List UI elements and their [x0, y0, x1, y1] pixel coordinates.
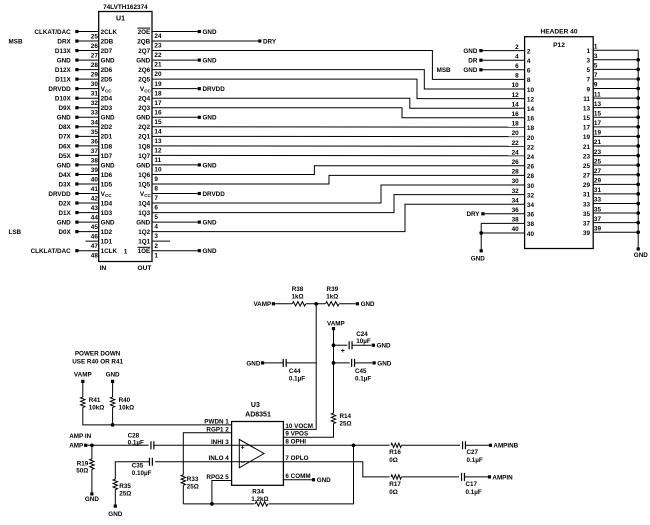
P12 pin 18 [512, 121, 535, 133]
svg-text:23: 23 [154, 43, 162, 50]
P12 pin 39 wire to ground bus [583, 225, 640, 237]
svg-text:29: 29 [91, 72, 99, 79]
svg-text:30: 30 [91, 81, 99, 88]
U1 pin 43 (1D4) input wire D2X [58, 200, 112, 212]
svg-text:R34: R34 [252, 489, 264, 496]
svg-text:2CLK: 2CLK [101, 29, 118, 36]
node OPHI feedback junction [352, 443, 356, 447]
P12 pin 25 wire to ground bus [583, 158, 640, 170]
svg-text:30: 30 [527, 183, 535, 190]
U1 pin 11 (1Q7) output wire to P12 pin 24 [138, 153, 524, 164]
svg-text:1: 1 [124, 248, 128, 255]
svg-text:R35: R35 [119, 483, 131, 490]
svg-text:34: 34 [91, 119, 99, 126]
svg-text:D7X: D7X [58, 134, 71, 141]
svg-text:0Ω: 0Ω [389, 457, 398, 464]
svg-text:2Q4: 2Q4 [138, 96, 150, 103]
svg-text:1kΩ: 1kΩ [291, 293, 303, 300]
svg-text:27: 27 [583, 173, 591, 180]
U1 pin 1 (1OE) output wire to GND [137, 247, 217, 259]
U1 pin 28 (GND) input wire GND [57, 57, 115, 69]
svg-text:GND: GND [101, 220, 115, 227]
svg-text:GND: GND [57, 220, 71, 227]
svg-text:C17: C17 [466, 481, 478, 488]
U1 pin 14 (2Q2) output wire to P12 pin 18 [138, 124, 524, 135]
svg-text:1Q7: 1Q7 [138, 153, 150, 160]
U1 pin 46 (1D2) input wire D0X [58, 229, 112, 241]
svg-text:1Q3: 1Q3 [138, 210, 150, 217]
svg-text:2DB: 2DB [101, 38, 114, 45]
U1 pin 21 (GND) output wire to GND [136, 57, 217, 68]
svg-text:VAMP: VAMP [74, 372, 92, 379]
ground label below P12 pins 38/40 [471, 256, 485, 263]
svg-text:GND: GND [361, 301, 375, 308]
svg-text:MSB: MSB [9, 38, 23, 45]
svg-text:18: 18 [527, 125, 535, 132]
P12 pin 16 [512, 111, 535, 123]
svg-text:D8X: D8X [58, 124, 71, 131]
resistor R17 0Ω [389, 475, 401, 496]
P12 pin 19 wire to ground bus [583, 130, 640, 142]
capacitor C27 0.1µF [463, 441, 483, 464]
svg-text:48: 48 [91, 253, 99, 260]
svg-text:R38: R38 [292, 286, 304, 293]
wire R38 to R39 with VOCM tap [306, 303, 325, 305]
svg-text:2D4: 2D4 [101, 96, 113, 103]
AMP input terminal [69, 443, 87, 450]
svg-text:36: 36 [91, 138, 99, 145]
svg-text:34: 34 [512, 197, 520, 204]
svg-text:GND: GND [317, 477, 331, 484]
resistor R38 1kΩ [291, 286, 305, 306]
svg-text:VAMP: VAMP [327, 321, 345, 328]
svg-text:25Ω: 25Ω [340, 421, 352, 428]
wire R39 to GND [339, 301, 375, 308]
U1 pin 10 (GND) output wire to GND [136, 162, 217, 173]
connector P12 HEADER 40 body [525, 37, 594, 249]
U1 pin 18 (VCC) output wire to DRVDD [140, 86, 225, 97]
svg-text:21: 21 [154, 62, 162, 69]
svg-text:R40: R40 [119, 397, 131, 404]
svg-text:23: 23 [583, 153, 591, 160]
svg-text:14: 14 [527, 106, 535, 113]
svg-text:GND: GND [57, 57, 71, 64]
svg-text:GND: GND [57, 162, 71, 169]
svg-text:35: 35 [91, 129, 99, 136]
svg-text:GND: GND [634, 252, 648, 259]
svg-text:GND: GND [101, 115, 115, 122]
svg-text:38: 38 [527, 221, 535, 228]
svg-text:18: 18 [154, 90, 162, 97]
svg-text:GND: GND [136, 220, 150, 227]
svg-text:42: 42 [91, 196, 99, 203]
svg-text:3: 3 [586, 58, 590, 65]
svg-text:USE R40 OR R41: USE R40 OR R41 [72, 358, 123, 365]
U1 pin 35 (2D2) input wire D8X [58, 124, 112, 136]
svg-text:39: 39 [594, 225, 602, 232]
svg-text:IN: IN [100, 265, 107, 272]
svg-text:DRY: DRY [466, 211, 480, 218]
wire C27 to AMPINB terminal [466, 443, 519, 450]
svg-text:3: 3 [154, 233, 158, 240]
svg-text:2: 2 [527, 48, 531, 55]
svg-text:LSB: LSB [9, 229, 22, 236]
svg-text:1.2kΩ: 1.2kΩ [251, 496, 268, 503]
svg-text:2D1: 2D1 [101, 134, 113, 141]
wire R34 to OPHI tap [269, 445, 354, 504]
U1 pin 36 (2D1) input wire D7X [58, 134, 112, 146]
U1 pin 19 (2Q5) output wire to P12 pin 12 [138, 77, 524, 99]
U1 pin 3 (1Q2) output wire to P12 pin 34 [138, 204, 524, 240]
svg-text:D2X: D2X [58, 200, 71, 207]
svg-text:GND: GND [85, 496, 99, 503]
svg-text:GND: GND [101, 57, 115, 64]
svg-text:PWDN 1: PWDN 1 [204, 418, 229, 425]
svg-text:MSB: MSB [437, 67, 451, 74]
U1 pin 42 (VCC) input wire DRVDD [48, 191, 112, 203]
svg-text:25Ω: 25Ω [119, 490, 131, 497]
U1 reference designator [116, 16, 125, 23]
svg-text:2D2: 2D2 [101, 124, 113, 131]
U3 pin 5 RPG2 label [206, 474, 229, 481]
svg-text:5: 5 [594, 63, 598, 70]
svg-text:1kΩ: 1kΩ [326, 293, 338, 300]
U1 pin 47 (1D1) input wire 1D1 stub [86, 239, 113, 251]
capacitor C24 10µF polarized [334, 331, 371, 355]
svg-text:31: 31 [594, 187, 602, 194]
svg-text:GND: GND [101, 162, 115, 169]
U3 reference designator [251, 402, 260, 409]
U1 pin 40 (1D6) input wire D4X [58, 172, 112, 184]
svg-text:19: 19 [594, 130, 602, 137]
LSB marker (input side) [9, 229, 22, 236]
P12 pin 8 [515, 73, 531, 85]
svg-text:GND: GND [377, 360, 391, 367]
wire VOCM vertical from R38/R39 junction to U3 pin 10 [283, 304, 316, 430]
IC U1 74LVTH162374 body [99, 12, 152, 262]
U1 pin 12 (1Q8) output wire to P12 pin 22 [138, 143, 524, 154]
svg-text:2Q5: 2Q5 [138, 77, 150, 84]
svg-text:C28: C28 [128, 432, 140, 439]
P12 pin 11 wire to ground bus [583, 91, 640, 103]
wire R17 to C17 [402, 476, 460, 478]
svg-text:1D7: 1D7 [101, 153, 113, 160]
svg-text:C27: C27 [467, 449, 479, 456]
MSB marker (input side) [9, 38, 23, 45]
svg-text:GND: GND [203, 162, 217, 169]
U1 pin 4 (GND) output wire to GND [136, 220, 217, 231]
svg-text:R14: R14 [340, 413, 352, 420]
svg-text:11: 11 [594, 91, 601, 98]
svg-text:33: 33 [594, 197, 602, 204]
svg-text:1D6: 1D6 [101, 172, 113, 179]
svg-text:6 COMM: 6 COMM [285, 473, 310, 480]
svg-text:C44: C44 [289, 368, 301, 375]
svg-text:D3X: D3X [58, 181, 71, 188]
P12 pin 36 from DRY [466, 207, 534, 219]
svg-text:+: + [241, 445, 245, 452]
svg-text:12: 12 [154, 147, 162, 154]
svg-text:14: 14 [154, 128, 162, 135]
svg-text:1Q8: 1Q8 [138, 143, 150, 150]
MSB marker at P12 pin 6 [437, 67, 451, 74]
U1 pin 33 (2D3) input wire D9X [58, 105, 112, 117]
svg-text:D13X: D13X [55, 48, 72, 55]
svg-text:22: 22 [512, 140, 520, 147]
svg-text:2: 2 [515, 44, 519, 51]
svg-text:CLKLAT/DAC: CLKLAT/DAC [31, 248, 72, 255]
resistor R33 25Ω [181, 475, 199, 491]
svg-text:D5X: D5X [58, 153, 71, 160]
U1 pin 8 (1Q5) output wire to P12 pin 28 [138, 175, 524, 192]
resistor R14 25Ω [331, 413, 351, 428]
P12 pin 1 wire to ground bus [586, 43, 638, 55]
svg-text:0Ω: 0Ω [389, 489, 398, 496]
wire VAMP down to R14 [333, 330, 335, 413]
wire C45 to GND [354, 360, 391, 367]
svg-text:17: 17 [583, 125, 591, 132]
svg-text:1Q5: 1Q5 [138, 181, 150, 188]
svg-text:R17: R17 [389, 481, 401, 488]
wire U3 pin 5 RPG2 down to gain rail [210, 481, 232, 506]
capacitor C45 0.1µF [334, 359, 372, 382]
svg-text:13: 13 [583, 105, 591, 112]
svg-text:40: 40 [91, 176, 99, 183]
svg-text:24: 24 [512, 149, 520, 156]
svg-text:10: 10 [512, 82, 520, 89]
wire P12 pins 38/40 to GND with junction [479, 223, 483, 252]
svg-text:35: 35 [594, 206, 602, 213]
svg-text:GND: GND [377, 343, 391, 350]
resistor R39 1kΩ [326, 286, 340, 306]
U1 pin 1 number inside [124, 248, 128, 255]
svg-text:CLKAT/DAC: CLKAT/DAC [34, 29, 71, 36]
svg-text:D6X: D6X [58, 143, 71, 150]
P12 pin 24 [512, 149, 535, 161]
svg-text:1D1: 1D1 [101, 239, 113, 246]
svg-text:10kΩ: 10kΩ [89, 404, 105, 411]
svg-text:29: 29 [594, 178, 602, 185]
P12 pin 35 wire to ground bus [583, 206, 640, 218]
svg-text:18: 18 [512, 121, 520, 128]
svg-text:1: 1 [586, 48, 590, 55]
svg-text:R39: R39 [327, 286, 339, 293]
svg-text:43: 43 [91, 205, 99, 212]
svg-text:4: 4 [527, 58, 531, 65]
wire U3 pin 2 RGP1 to R33 [183, 433, 231, 475]
svg-text:D11X: D11X [55, 77, 71, 84]
svg-text:27: 27 [594, 168, 602, 175]
svg-text:D0X: D0X [58, 229, 71, 236]
U1 OUT label [138, 265, 152, 272]
svg-text:10kΩ: 10kΩ [119, 404, 135, 411]
svg-text:INHI 3: INHI 3 [211, 439, 229, 446]
svg-text:D4X: D4X [58, 172, 71, 179]
VAMP terminal feeding VPOS [327, 321, 345, 331]
wire R41 to PWDN rail [83, 407, 232, 425]
svg-text:1OE: 1OE [138, 248, 151, 255]
U1 pin 16 (2Q3) output wire to P12 pin 16 [138, 105, 524, 118]
svg-text:37: 37 [594, 216, 602, 223]
svg-text:40: 40 [512, 226, 520, 233]
svg-text:20: 20 [527, 135, 535, 142]
ground label below R19 [85, 496, 99, 503]
wire R40 to PWDN rail with junction [111, 407, 115, 426]
svg-text:38: 38 [512, 217, 520, 224]
svg-text:AMP IN: AMP IN [69, 433, 91, 440]
svg-text:3: 3 [594, 53, 598, 60]
resistor R35 25Ω [113, 479, 131, 497]
svg-text:20: 20 [512, 130, 520, 137]
U1 pin 26 (2DB) input wire DRX [57, 38, 113, 50]
svg-text:GND: GND [246, 360, 260, 367]
svg-text:VCC: VCC [101, 191, 113, 198]
svg-text:36: 36 [512, 207, 520, 214]
svg-text:50Ω: 50Ω [76, 467, 88, 474]
node C24 tap [332, 343, 336, 347]
svg-text:13: 13 [594, 101, 602, 108]
svg-text:2D5: 2D5 [101, 77, 113, 84]
P12 pin 31 wire to ground bus [583, 187, 640, 199]
svg-text:D12X: D12X [55, 67, 72, 74]
svg-text:GND: GND [463, 67, 477, 74]
svg-text:10 VOCM: 10 VOCM [285, 423, 313, 430]
svg-text:2OE: 2OE [138, 29, 151, 36]
svg-text:2Q2: 2Q2 [138, 124, 150, 131]
resistor R34 1.2kΩ [251, 489, 268, 506]
P12 pin 9 wire to ground bus [586, 82, 640, 94]
U1 pin 39 (GND) input wire GND [57, 162, 115, 174]
svg-text:D9X: D9X [58, 105, 71, 112]
svg-text:25Ω: 25Ω [187, 484, 199, 491]
U1 pin 32 (2D4) input wire D10X [55, 96, 113, 108]
svg-text:AMPINB: AMPINB [493, 443, 518, 450]
U1 pin 48 (1CLK) input wire CLKLAT/DAC [31, 248, 118, 260]
svg-text:1D3: 1D3 [101, 210, 113, 217]
svg-text:28: 28 [91, 62, 99, 69]
svg-text:11: 11 [154, 157, 161, 164]
U1 pin 27 (2D7) input wire D13X [55, 48, 113, 60]
svg-text:AMPIN: AMPIN [492, 474, 513, 481]
svg-text:22: 22 [527, 144, 535, 151]
svg-text:23: 23 [594, 149, 602, 156]
svg-text:RPG2 5: RPG2 5 [206, 474, 229, 481]
svg-text:GND: GND [203, 29, 217, 36]
node C45 tap [332, 361, 336, 365]
svg-text:P12: P12 [553, 42, 565, 49]
svg-text:7: 7 [586, 77, 590, 84]
svg-text:31: 31 [583, 192, 591, 199]
svg-text:21: 21 [594, 139, 602, 146]
svg-text:12: 12 [512, 92, 520, 99]
svg-text:6: 6 [154, 205, 158, 212]
svg-text:DRVDD: DRVDD [203, 191, 226, 198]
U1 pin 30 (2D5) input wire D11X [55, 77, 112, 89]
svg-text:U3: U3 [251, 402, 260, 409]
svg-text:0.10µF: 0.10µF [132, 470, 152, 477]
svg-text:C45: C45 [355, 368, 367, 375]
svg-text:DRY: DRY [263, 38, 277, 45]
svg-text:41: 41 [91, 186, 99, 193]
P12 pin 34 [512, 197, 535, 209]
VAMP terminal for R41 [74, 372, 92, 383]
U1 pin 7 (VCC) output wire to DRVDD [140, 191, 225, 202]
P12 pin 28 [512, 169, 535, 181]
svg-text:10µF: 10µF [356, 338, 371, 345]
node AMP/R19 junction [90, 443, 94, 447]
svg-text:25: 25 [91, 34, 99, 41]
P12 pin 26 [512, 159, 535, 171]
svg-text:40: 40 [527, 231, 535, 238]
U1 pin 37 (1D8) input wire D6X [58, 143, 112, 155]
P12 pin 10 [512, 82, 535, 94]
svg-text:GND: GND [57, 115, 71, 122]
VAMP terminal feeding R38 [253, 301, 275, 308]
svg-text:GND: GND [203, 248, 217, 255]
svg-text:8: 8 [527, 77, 531, 84]
svg-text:VCC: VCC [101, 86, 113, 93]
svg-text:32: 32 [512, 188, 520, 195]
svg-text:VAMP: VAMP [253, 301, 271, 308]
svg-text:1: 1 [594, 43, 598, 50]
P12 pin 40 to GND [481, 226, 534, 238]
svg-text:VCC: VCC [140, 86, 152, 93]
ground label below R35 [108, 511, 122, 518]
svg-text:HEADER 40: HEADER 40 [540, 28, 577, 35]
U1 pin 22 (2Q7) output wire to P12 pin 8 [138, 48, 524, 79]
svg-text:8: 8 [154, 186, 158, 193]
svg-text:47: 47 [91, 243, 99, 250]
svg-text:GND: GND [136, 162, 150, 169]
P12 pin 3 wire to ground bus [586, 53, 640, 65]
svg-text:5: 5 [154, 214, 158, 221]
wire AMP to C28 [87, 444, 148, 446]
svg-text:34: 34 [527, 202, 535, 209]
svg-text:2Q6: 2Q6 [138, 67, 150, 74]
wire R19 to GND [90, 469, 93, 495]
svg-text:36: 36 [527, 212, 535, 219]
U1 pin 13 (2Q1) output wire to P12 pin 20 [138, 134, 524, 145]
svg-text:1D2: 1D2 [101, 229, 113, 236]
P12 pin 23 wire to ground bus [583, 149, 640, 161]
svg-text:−: − [241, 459, 245, 466]
svg-text:7: 7 [154, 195, 158, 202]
svg-text:D1X: D1X [58, 210, 71, 217]
U1 pin 41 (1D5) input wire D3X [58, 181, 112, 193]
svg-text:9: 9 [586, 86, 590, 93]
svg-text:9: 9 [594, 82, 598, 89]
P12 pin 27 wire to ground bus [583, 168, 640, 180]
svg-text:10: 10 [527, 87, 535, 94]
svg-text:25: 25 [594, 158, 602, 165]
wire R35 to GND [114, 490, 117, 508]
svg-text:2D6: 2D6 [101, 67, 113, 74]
svg-text:44: 44 [91, 215, 99, 222]
wire U3 pin 8 OPHI to R16 [283, 444, 389, 446]
svg-text:26: 26 [512, 159, 520, 166]
svg-text:8 OPHI: 8 OPHI [285, 439, 306, 446]
svg-text:GND: GND [203, 57, 217, 64]
P12 pin 33 wire to ground bus [583, 197, 640, 209]
svg-text:74LVTH162374: 74LVTH162374 [103, 4, 148, 11]
resistor R41 10kΩ [81, 383, 105, 411]
svg-text:GND: GND [106, 372, 120, 379]
U3 pin 3 INHI label [211, 439, 229, 446]
U3 pin 4 INLO label [209, 455, 230, 462]
svg-text:12: 12 [527, 96, 535, 103]
P12 pin 22 [512, 140, 535, 152]
svg-text:6: 6 [515, 63, 519, 70]
